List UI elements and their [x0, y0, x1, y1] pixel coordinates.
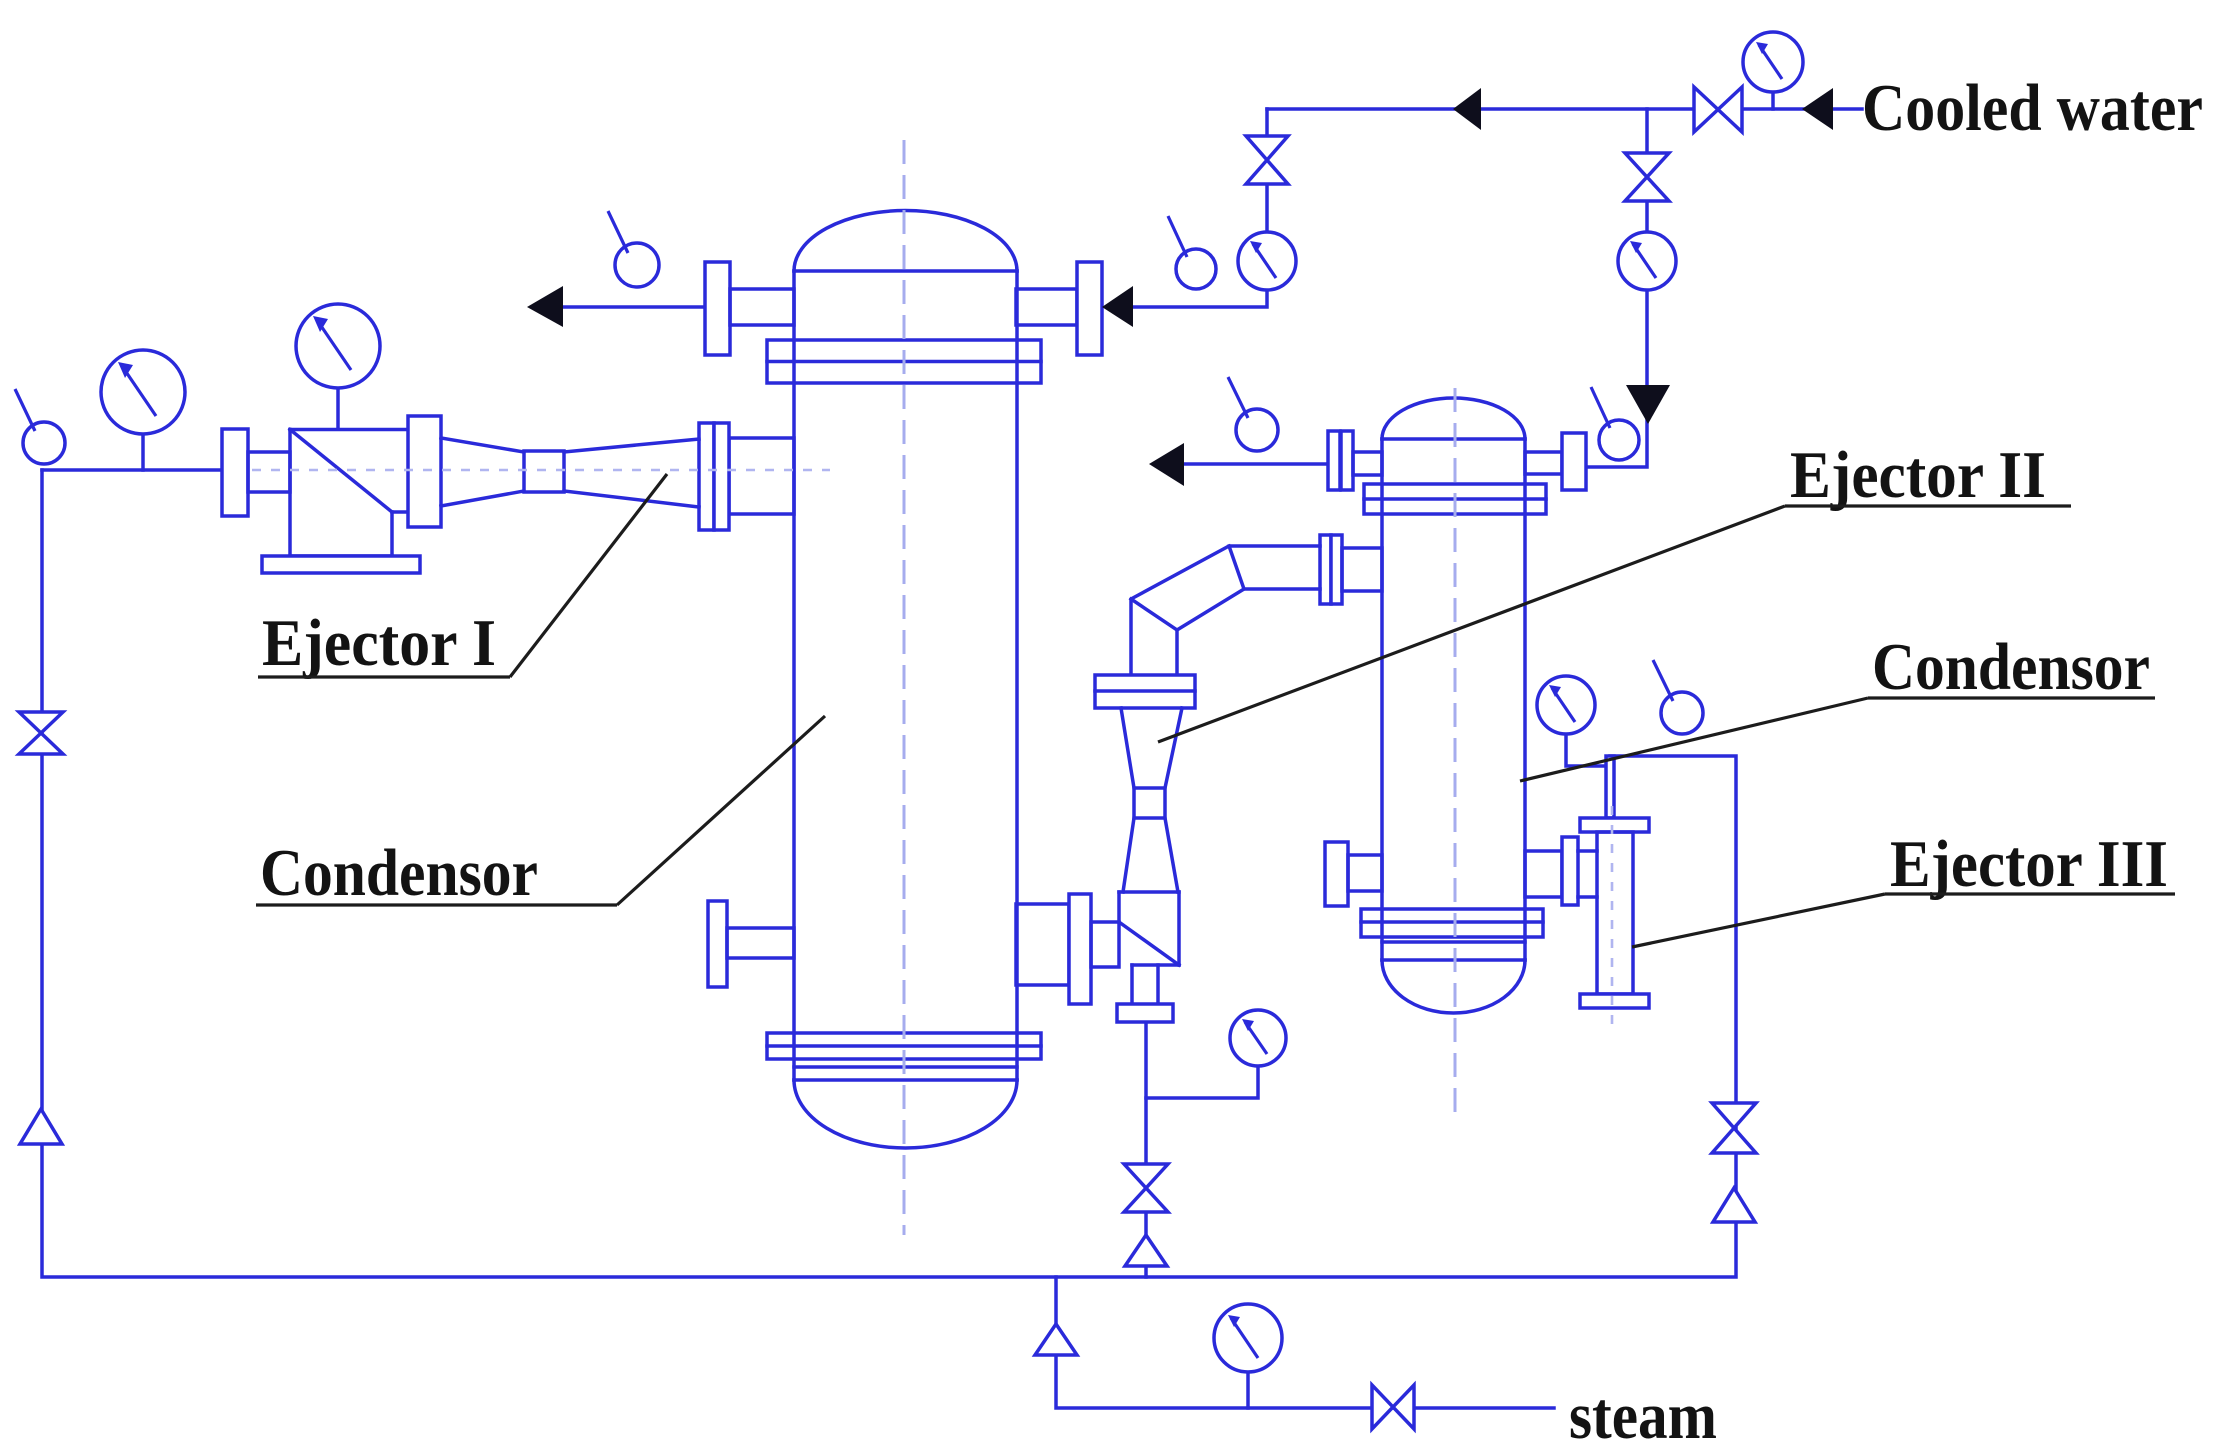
svg-text:steam: steam [1569, 1379, 1717, 1449]
svg-text:Ejector I: Ejector I [262, 606, 496, 680]
svg-text:Cooled water: Cooled water [1862, 71, 2203, 145]
svg-text:Condensor: Condensor [260, 836, 538, 910]
svg-text:Ejector III: Ejector III [1890, 827, 2168, 901]
svg-text:Ejector II: Ejector II [1790, 438, 2046, 512]
svg-text:Condensor: Condensor [1872, 630, 2150, 704]
